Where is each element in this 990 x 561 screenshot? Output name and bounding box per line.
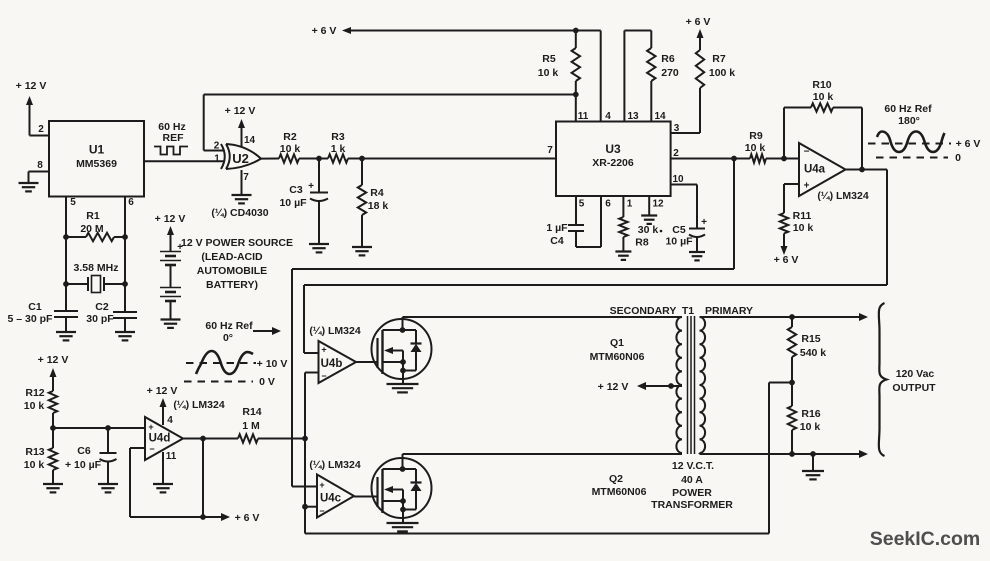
- wire: [671, 158, 734, 160]
- svg-text:R7: R7: [712, 53, 726, 65]
- svg-text:6: 6: [128, 197, 134, 208]
- watermark SeekIC.com: [870, 528, 981, 550]
- svg-text:4: 4: [605, 111, 611, 122]
- svg-text:20 M: 20 M: [80, 223, 104, 235]
- svg-text:MM5369: MM5369: [76, 158, 117, 170]
- svg-text:(¼) LM324: (¼) LM324: [309, 325, 361, 337]
- svg-text:0°: 0°: [223, 332, 233, 344]
- pin 6 label: [605, 199, 611, 210]
- svg-text:14: 14: [654, 111, 666, 122]
- wire Q2 drain rail: [403, 454, 683, 456]
- svg-text:MTM60N06: MTM60N06: [590, 351, 645, 363]
- arrow output top: [859, 313, 868, 321]
- wire feedback rail: [305, 383, 792, 534]
- wire primary bottom to output: [700, 453, 861, 454]
- op-amp U4a: [799, 143, 846, 196]
- pin 14 label: [654, 111, 666, 122]
- svg-text:+ 6 V: + 6 V: [956, 138, 981, 150]
- svg-text:R1: R1: [86, 210, 100, 222]
- svg-text:(¼) LM324: (¼) LM324: [817, 190, 869, 202]
- svg-text:Q1: Q1: [610, 337, 624, 349]
- wire noninv input: [784, 184, 799, 213]
- ground: [153, 484, 173, 492]
- svg-text:PRIMARY: PRIMARY: [705, 305, 753, 317]
- ground pin 12: [641, 196, 657, 224]
- ground: [98, 484, 118, 492]
- op-amp U4c: [317, 475, 354, 518]
- transformer T1 primary winding: [700, 317, 706, 453]
- wire fb to U4c inv: [304, 439, 306, 507]
- power +6V rail: [312, 25, 601, 37]
- power +6V (R7): [686, 16, 711, 50]
- resistor R15: [788, 317, 826, 383]
- svg-text:5 – 30 pF: 5 – 30 pF: [8, 313, 54, 325]
- svg-text:MTM60N06: MTM60N06: [592, 486, 647, 498]
- svg-text:12 V.C.T.: 12 V.C.T.: [672, 460, 714, 472]
- label (1/4) LM324: [173, 399, 225, 411]
- node R15 top: [789, 314, 795, 320]
- capacitor C6: [65, 428, 117, 484]
- power +12V (U2 pin 14): [225, 105, 256, 147]
- pin 14: [244, 135, 256, 146]
- svg-text:+: +: [701, 217, 707, 228]
- svg-text:10 k: 10 k: [280, 143, 301, 155]
- node U3 pin2 out: [731, 156, 737, 162]
- level +6V dashed: [868, 138, 980, 150]
- label battery: [181, 237, 293, 291]
- pin 5: [70, 197, 76, 208]
- label 60 Hz REF: [158, 121, 185, 144]
- svg-text:R2: R2: [283, 131, 297, 143]
- wire: [305, 507, 317, 534]
- node bias: [50, 425, 56, 431]
- pin 12 label: [652, 199, 664, 210]
- xor gate U2: [221, 144, 261, 169]
- node crystal left: [63, 281, 69, 287]
- svg-text:+ 12 V: + 12 V: [16, 80, 47, 92]
- svg-text:R14: R14: [242, 406, 261, 418]
- transistor Q2 MTM60N06: [372, 456, 432, 523]
- ground: [161, 320, 181, 328]
- svg-text:2: 2: [38, 124, 44, 135]
- svg-text:C5: C5: [672, 224, 686, 236]
- svg-text:T1: T1: [682, 305, 694, 317]
- label (1/4) LM324: [309, 459, 361, 471]
- pin 5 label: [579, 199, 585, 210]
- label 60 Hz Ref 180: [884, 103, 932, 127]
- level 0V dashed: [184, 376, 275, 388]
- svg-text:5: 5: [579, 199, 585, 210]
- svg-text:12 V POWER SOURCE: 12 V POWER SOURCE: [181, 237, 293, 249]
- capacitor C2: [86, 301, 137, 332]
- svg-text:(LEAD-ACID: (LEAD-ACID: [201, 251, 263, 263]
- svg-text:U2: U2: [232, 151, 249, 166]
- power +12V (U4d pin4): [147, 385, 178, 425]
- svg-text:30 k: 30 k: [638, 224, 659, 236]
- svg-text:R3: R3: [331, 131, 345, 143]
- squarewave symbol: [154, 147, 188, 155]
- node R16 bottom: [789, 451, 795, 457]
- svg-text:C6: C6: [77, 445, 91, 457]
- wire primary top to output: [700, 316, 861, 318]
- svg-text:+ 12 V: + 12 V: [155, 213, 186, 225]
- ground: [19, 183, 39, 191]
- svg-text:10 k: 10 k: [538, 67, 559, 79]
- svg-text:(¼) LM324: (¼) LM324: [173, 399, 225, 411]
- node U4a inv input: [781, 156, 787, 162]
- ground: [115, 332, 135, 340]
- ground: [615, 252, 631, 260]
- battery B1: [160, 242, 183, 320]
- svg-text:60 Hz Ref: 60 Hz Ref: [884, 103, 932, 115]
- svg-text:C4: C4: [550, 235, 564, 247]
- svg-text:R5: R5: [542, 53, 556, 65]
- wire: [29, 172, 50, 184]
- sine wave 0: [196, 351, 253, 374]
- transistor Q1 MTM60N06: [372, 317, 432, 384]
- output brace: [879, 303, 887, 456]
- level 0 dashed: [876, 152, 961, 164]
- svg-text:+ 12 V: + 12 V: [598, 381, 629, 393]
- pin 2 label: [673, 148, 679, 159]
- svg-text:U4a: U4a: [804, 164, 826, 176]
- wire pin 3: [671, 132, 700, 134]
- wire U4b noninv: [304, 352, 319, 354]
- ground: [56, 332, 76, 340]
- svg-text:+: +: [148, 422, 153, 432]
- svg-text:+ 10 µF: + 10 µF: [65, 459, 102, 471]
- wire: [30, 135, 50, 137]
- pin 13 label: [627, 111, 639, 122]
- svg-text:R16: R16: [801, 408, 820, 420]
- svg-text:C3: C3: [289, 184, 303, 196]
- pin 1 label: [214, 154, 220, 165]
- svg-text:14: 14: [244, 135, 256, 146]
- resistor R7: [696, 50, 735, 133]
- svg-text:+ 6 V: + 6 V: [774, 254, 799, 266]
- wire U1 to U2 pin1: [144, 160, 224, 162]
- svg-text:120 Vac: 120 Vac: [896, 368, 935, 380]
- svg-text:R13: R13: [25, 446, 44, 458]
- label (1/4) LM324: [817, 190, 869, 202]
- wire to U3 pin 7: [362, 158, 555, 160]
- node +6V ref: [200, 514, 206, 520]
- node ground tap: [810, 451, 816, 457]
- capacitor C1: [8, 301, 78, 332]
- label (1/4) CD4030: [211, 207, 268, 219]
- svg-text:R4: R4: [370, 187, 384, 199]
- pin 10 label: [672, 174, 684, 185]
- svg-text:C1: C1: [28, 301, 42, 313]
- node pin11 feedback: [573, 92, 579, 98]
- capacitor C5: [665, 185, 707, 253]
- node C6: [105, 425, 111, 431]
- crystal Y1 3.58 MHz: [66, 262, 125, 293]
- node U4a output: [859, 167, 865, 173]
- pin 7: [243, 172, 249, 183]
- resistor R4: [358, 159, 389, 248]
- pin 2 label: [214, 141, 220, 152]
- svg-text:(¼) CD4030: (¼) CD4030: [211, 207, 268, 219]
- svg-text:R12: R12: [25, 387, 44, 399]
- resistor R8: [619, 196, 662, 252]
- svg-text:10 µF: 10 µF: [665, 236, 693, 248]
- svg-text:2: 2: [214, 141, 220, 152]
- svg-text:+ 12 V: + 12 V: [38, 354, 69, 366]
- svg-text:−: −: [319, 506, 324, 516]
- pin 8: [37, 160, 43, 171]
- wire: [65, 197, 67, 312]
- pin 7 label: [547, 145, 553, 156]
- wire fb to U4b inv: [305, 373, 319, 439]
- node U4d output: [200, 436, 206, 442]
- wire: [241, 170, 243, 195]
- svg-text:2: 2: [673, 148, 679, 159]
- svg-text:BATTERY): BATTERY): [206, 279, 258, 291]
- svg-text:POWER: POWER: [672, 487, 712, 499]
- svg-text:4: 4: [167, 415, 173, 426]
- op-amp U4d: [145, 417, 183, 460]
- svg-text:60 Hz Ref: 60 Hz Ref: [205, 320, 253, 332]
- node R5 top: [573, 28, 579, 34]
- label transformer: [651, 460, 733, 511]
- wire U4c out to gate: [354, 496, 378, 498]
- svg-text:U4b: U4b: [321, 358, 343, 370]
- svg-text:+ 12 V: + 12 V: [225, 105, 256, 117]
- resistor R14: [203, 406, 305, 443]
- node U4c inv: [302, 504, 308, 510]
- wire: [124, 197, 126, 313]
- svg-text:OUTPUT: OUTPUT: [892, 382, 936, 394]
- svg-text:1: 1: [214, 154, 220, 165]
- svg-text:8: 8: [37, 160, 43, 171]
- svg-text:10 µF: 10 µF: [279, 197, 307, 209]
- resistor R10 feedback: [784, 79, 862, 170]
- svg-text:AUTOMOBILE: AUTOMOBILE: [197, 265, 267, 277]
- svg-text:R6: R6: [661, 53, 675, 65]
- resistor R3: [319, 131, 362, 163]
- node R1 left: [63, 234, 69, 240]
- wire pin 13 loop: [624, 31, 651, 122]
- svg-text:+: +: [319, 480, 324, 490]
- svg-text:(¼) LM324: (¼) LM324: [309, 459, 361, 471]
- svg-text:100 k: 100 k: [709, 67, 735, 79]
- svg-text:3: 3: [674, 123, 680, 134]
- svg-text:U1: U1: [89, 143, 105, 157]
- label (1/4) LM324: [309, 325, 361, 337]
- power +12V (U1 pin 2): [16, 80, 47, 136]
- label Q2: [592, 473, 647, 498]
- ground: [802, 454, 824, 479]
- resistor R13: [24, 428, 57, 484]
- wire U4c noninv: [292, 486, 317, 488]
- wire Q1 drain rail: [403, 316, 683, 318]
- resistor R12: [24, 387, 57, 428]
- svg-text:REF: REF: [163, 132, 185, 144]
- wire U2 pin2 net: [204, 95, 576, 151]
- svg-text:+ 10 V: + 10 V: [257, 358, 288, 370]
- svg-text:540 k: 540 k: [800, 347, 826, 359]
- level +10V dashed: [186, 358, 287, 370]
- resistor R5: [538, 31, 580, 95]
- svg-text:7: 7: [243, 172, 249, 183]
- svg-text:11: 11: [578, 111, 589, 122]
- svg-text:SECONDARY: SECONDARY: [610, 305, 677, 317]
- wire U4a output: [304, 170, 887, 354]
- pin 2: [38, 124, 44, 135]
- capacitor C3: [279, 159, 328, 245]
- node C3: [316, 156, 322, 162]
- capacitor C4 loop: [546, 196, 601, 247]
- svg-text:R9: R9: [749, 130, 763, 142]
- svg-text:180°: 180°: [898, 115, 920, 127]
- svg-text:10 k: 10 k: [813, 91, 834, 103]
- svg-text:+: +: [308, 181, 314, 192]
- resistor R16: [788, 383, 821, 455]
- node R14 junction: [302, 436, 308, 442]
- node crystal right: [122, 281, 128, 287]
- svg-text:0: 0: [955, 152, 961, 164]
- op-amp U4b: [319, 341, 357, 383]
- wire sine0 net down: [292, 159, 734, 487]
- svg-text:R11: R11: [793, 210, 812, 222]
- wire inv input: [784, 158, 799, 160]
- sine wave 180: [877, 132, 945, 153]
- svg-text:R8: R8: [635, 237, 649, 249]
- ground: [43, 484, 63, 492]
- pin 11 label: [166, 451, 177, 462]
- svg-text:U3: U3: [605, 142, 621, 156]
- wire pin 4: [600, 31, 602, 122]
- ground Q2 source: [387, 523, 419, 531]
- svg-text:R15: R15: [801, 333, 820, 345]
- svg-text:U4c: U4c: [320, 493, 342, 505]
- svg-text:1 µF: 1 µF: [546, 222, 568, 234]
- svg-text:XR-2206: XR-2206: [592, 157, 634, 169]
- svg-text:12: 12: [652, 199, 664, 210]
- ground: [232, 195, 252, 203]
- svg-text:10 k: 10 k: [800, 421, 821, 433]
- resistor R2: [261, 131, 319, 163]
- label 60 Hz Ref 0: [205, 320, 253, 344]
- resistor R6: [647, 31, 679, 122]
- svg-text:3.58 MHz: 3.58 MHz: [74, 262, 119, 274]
- arrow annotation: [253, 327, 281, 335]
- node R1 right: [122, 234, 128, 240]
- ground: [309, 244, 329, 252]
- svg-text:18 k: 18 k: [368, 200, 389, 212]
- pin 4 label: [605, 111, 611, 122]
- pin 3 label: [674, 123, 680, 134]
- svg-text:7: 7: [547, 145, 553, 156]
- svg-text:0 V: 0 V: [259, 376, 275, 388]
- svg-text:40 A: 40 A: [681, 474, 703, 486]
- svg-text:1 k: 1 k: [331, 143, 346, 155]
- power +12V (battery): [155, 213, 186, 251]
- svg-text:11: 11: [166, 451, 177, 462]
- svg-text:+ 12 V: + 12 V: [147, 385, 178, 397]
- svg-text:+ 6 V: + 6 V: [312, 25, 337, 37]
- node R15 R16: [789, 380, 795, 386]
- svg-text:+ 6 V: + 6 V: [235, 512, 260, 524]
- svg-text:1: 1: [627, 199, 633, 210]
- svg-text:C2: C2: [95, 301, 109, 313]
- arrow output bottom: [859, 450, 868, 458]
- pin 4 label: [167, 415, 173, 426]
- label Q1: [590, 337, 645, 363]
- svg-text:+ 6 V: + 6 V: [686, 16, 711, 28]
- IC U3 XR-2206: [556, 122, 671, 197]
- svg-text:10: 10: [672, 174, 684, 185]
- svg-text:−: −: [149, 444, 154, 454]
- svg-text:270: 270: [661, 67, 679, 79]
- svg-text:SeekIC.com: SeekIC.com: [870, 528, 981, 550]
- wire: [53, 427, 144, 429]
- svg-text:10 k: 10 k: [24, 400, 45, 412]
- IC U1 MM5369: [49, 121, 144, 197]
- resistor R11: [780, 210, 814, 247]
- svg-text:10 k: 10 k: [24, 459, 45, 471]
- transformer core: [688, 316, 695, 454]
- power +6V (U4d out): [203, 512, 259, 524]
- svg-text:−: −: [321, 371, 326, 381]
- svg-text:1 M: 1 M: [242, 420, 260, 432]
- svg-text:U4d: U4d: [149, 433, 171, 445]
- wire feedback U4d: [130, 439, 203, 518]
- svg-text:+: +: [321, 345, 326, 355]
- svg-text:+: +: [804, 181, 810, 192]
- svg-text:10 k: 10 k: [793, 222, 814, 234]
- resistor R9: [734, 130, 784, 163]
- power +6V (R11): [774, 243, 799, 266]
- power +12V (R12): [38, 354, 69, 391]
- svg-text:30 pF: 30 pF: [86, 313, 114, 325]
- pin 6: [128, 197, 134, 208]
- resistor R1: [66, 210, 125, 241]
- wire pin 11: [575, 95, 577, 122]
- label 120 Vac OUTPUT: [892, 368, 936, 394]
- label SECONDARY T1 PRIMARY: [610, 305, 753, 317]
- svg-text:TRANSFORMER: TRANSFORMER: [651, 499, 733, 511]
- svg-text:5: 5: [70, 197, 76, 208]
- svg-text:R10: R10: [812, 79, 831, 91]
- pin 1 label: [627, 199, 633, 210]
- center tap +12V: [598, 381, 682, 393]
- svg-text:Q2: Q2: [609, 473, 623, 485]
- wire pin 11: [162, 452, 164, 484]
- ground Q1 source: [387, 384, 419, 392]
- node R4: [359, 156, 365, 162]
- svg-text:10 k: 10 k: [745, 142, 766, 154]
- svg-text:−: −: [804, 147, 810, 158]
- transformer T1 secondary winding: [676, 317, 682, 453]
- ground: [352, 247, 372, 255]
- svg-text:13: 13: [627, 111, 639, 122]
- ground: [689, 252, 705, 260]
- svg-text:6: 6: [605, 199, 611, 210]
- pin 11 label: [578, 111, 589, 122]
- wire U4b out to gate: [356, 361, 378, 363]
